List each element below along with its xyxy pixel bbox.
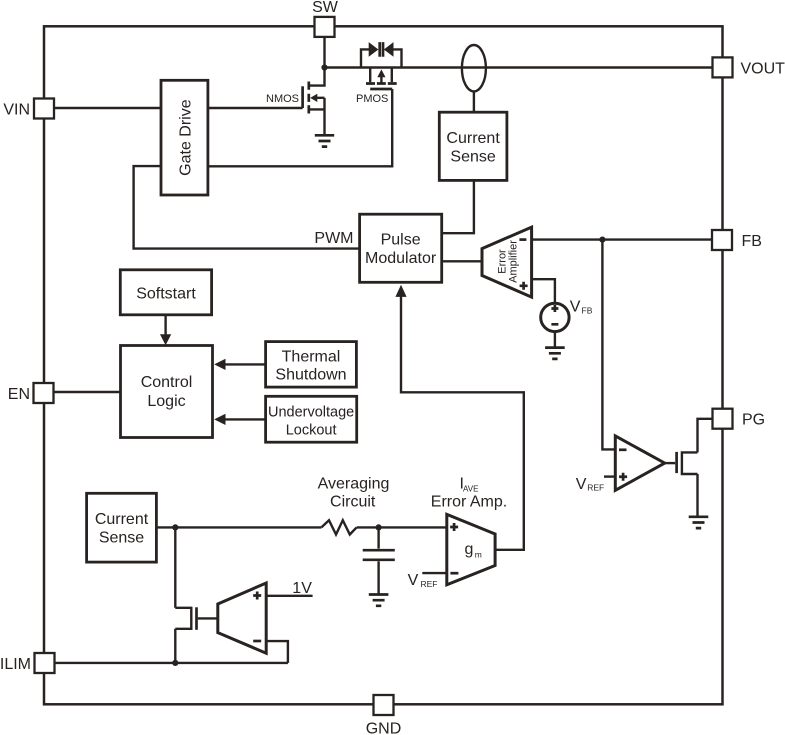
wire VIN to Gate Drive — [54, 107, 161, 109]
wire U4 output to Q4 gate — [198, 617, 218, 619]
svg-text:Sense: Sense — [99, 530, 144, 547]
svg-text:V: V — [576, 476, 587, 493]
diode D1 body diode (bidirectional pair) — [369, 42, 379, 57]
wire Undervoltage Lockout arrow to Control Logic — [225, 418, 266, 420]
capacitor C1 averaging — [377, 527, 379, 548]
svg-text:AVE: AVE — [463, 484, 478, 493]
pin PG — [713, 409, 733, 429]
pin VOUT — [713, 57, 733, 77]
svg-text:SW: SW — [312, 0, 339, 16]
op-amp U4 current limit comparator — [218, 583, 266, 653]
wire SW pin down to switch node — [323, 37, 325, 68]
wire Q3 drain to PG pin — [698, 419, 713, 453]
svg-text:NMOS: NMOS — [266, 93, 299, 105]
ground Q3 source — [689, 517, 709, 528]
pin EN — [34, 383, 54, 403]
node current sense branch — [172, 524, 178, 530]
pin FB — [712, 230, 732, 250]
node after resistor — [376, 524, 382, 530]
svg-text:V: V — [570, 299, 581, 316]
wire Q4 source to ILIM rail — [174, 629, 176, 663]
svg-text:g: g — [465, 541, 474, 558]
label U1 minus — [519, 238, 526, 241]
box Control Logic — [121, 346, 213, 438]
label U3 minus — [450, 572, 458, 575]
box Pulse Modulator — [360, 214, 442, 282]
box Thermal Shutdown — [266, 342, 357, 388]
current sense loop ellipse — [462, 45, 486, 91]
op-amp U3 gm error amp — [447, 514, 495, 584]
wire Thermal Shutdown arrow to Control Logic — [225, 363, 266, 365]
pin VIN — [34, 99, 54, 119]
svg-text:Amplifier: Amplifier — [508, 240, 520, 283]
svg-text:Current: Current — [95, 511, 149, 528]
box Current Sense (limit) — [87, 493, 157, 562]
box Softstart — [120, 270, 211, 315]
svg-text:V: V — [408, 572, 419, 589]
label U1 plus — [520, 282, 528, 290]
svg-text:Softstart: Softstart — [136, 285, 196, 302]
op-amp U2 PG comparator — [615, 436, 664, 490]
svg-text:Undervoltage: Undervoltage — [268, 405, 354, 421]
svg-text:Gate Drive: Gate Drive — [177, 99, 194, 176]
transistor Q1 NMOS body arrow head — [310, 94, 317, 102]
wire U3 output up to Pulse Modulator arrow — [401, 296, 524, 550]
transistor Q2 PMOS channel bars — [366, 82, 397, 85]
svg-text:m: m — [475, 550, 482, 560]
pin ILIM — [35, 653, 55, 673]
ground NMOS source — [315, 135, 334, 146]
svg-text:FB: FB — [742, 233, 762, 250]
svg-text:Error Amp.: Error Amp. — [431, 494, 507, 511]
wire switch node to VOUT — [325, 66, 713, 68]
transistor Q4 channel — [175, 608, 191, 629]
node switch-node junction — [321, 64, 327, 70]
svg-text:Current: Current — [446, 130, 500, 147]
svg-text:PMOS: PMOS — [356, 93, 388, 105]
svg-text:Pulse: Pulse — [381, 231, 421, 248]
svg-text:VOUT: VOUT — [741, 60, 785, 77]
ground VFB — [545, 348, 565, 359]
wire 1V reference to U4 plus — [266, 595, 312, 597]
box Undervoltage Lockout — [266, 396, 357, 442]
wire Softstart arrow to Control Logic — [164, 315, 166, 336]
label U3 plus — [450, 523, 458, 531]
node ILIM junction — [172, 660, 178, 666]
wire NMOS drain — [310, 68, 325, 86]
transistor Q1 NMOS channel bars — [307, 82, 310, 114]
label U2 plus — [619, 473, 627, 481]
wire FB junction down to PG comparator minus input — [602, 240, 615, 450]
svg-text:PG: PG — [742, 412, 765, 429]
wire Current Sense to averaging resistor and gm plus input — [156, 526, 446, 528]
pin SW — [315, 17, 335, 37]
wire Q3 source to ground — [696, 474, 698, 517]
op-amp U1 Error Amplifier — [482, 227, 532, 297]
wire EN pin to Control Logic — [54, 391, 121, 393]
resistor averaging — [321, 520, 356, 534]
svg-text:PWM: PWM — [314, 230, 353, 247]
transistor Q3 channel — [682, 452, 698, 474]
wire body diode loop — [361, 49, 402, 67]
svg-text:Control: Control — [141, 374, 193, 391]
transistor Q2 PMOS gate plate — [370, 88, 392, 91]
label U4 plus — [253, 592, 261, 600]
source VFB — [541, 303, 569, 331]
wire VREF to PG comparator plus input — [604, 475, 615, 477]
wire U4 minus feedback to ILIM rail — [266, 641, 288, 663]
wire Q4 drain from current sense node — [174, 527, 176, 607]
svg-text:VIN: VIN — [3, 101, 30, 118]
label U4 minus — [253, 640, 261, 643]
wire Pulse Modulator to Error Amplifier output — [442, 260, 482, 262]
box Gate Drive — [161, 80, 208, 195]
svg-text:1V: 1V — [292, 580, 312, 597]
ground C1 — [369, 595, 389, 606]
transistor Q2 PMOS body arrow — [380, 76, 382, 84]
wire ILIM rail — [55, 662, 288, 664]
svg-text:Circuit: Circuit — [330, 494, 376, 511]
label U2 minus — [619, 448, 627, 451]
node FB junction — [599, 237, 605, 243]
svg-text:ILIM: ILIM — [0, 656, 31, 673]
svg-text:Lockout: Lockout — [286, 422, 337, 438]
wire PWM: Pulse Modulator to Gate Drive — [134, 166, 360, 249]
wire VFB source to ground — [554, 332, 556, 348]
transistor Q2 PMOS source/drain stubs — [370, 68, 392, 83]
svg-text:REF: REF — [421, 579, 438, 589]
wire NMOS body arrow line and source to ground — [310, 98, 325, 135]
wire U2 output to Q3 gate — [665, 462, 676, 464]
svg-text:REF: REF — [587, 482, 604, 492]
wire Current Sense output to Pulse Modulator — [442, 180, 474, 233]
svg-text:Logic: Logic — [147, 393, 185, 410]
wire Gate Drive to NMOS gate — [208, 107, 303, 109]
chip boundary border — [44, 26, 723, 704]
svg-text:FB: FB — [582, 306, 593, 316]
transistor Q4 gate plate — [195, 607, 198, 630]
svg-text:Thermal: Thermal — [282, 348, 341, 365]
wire ellipse to Current Sense box — [473, 91, 475, 112]
svg-text:Modulator: Modulator — [365, 250, 437, 267]
wire PMOS gate down to Gate Drive output — [208, 89, 392, 166]
pin GND — [374, 695, 394, 715]
svg-text:GND: GND — [366, 721, 402, 735]
svg-text:Shutdown: Shutdown — [275, 367, 346, 384]
wire VREF to gm minus input — [422, 572, 447, 574]
wire FB net: error amp minus input to FB pin — [532, 238, 713, 240]
svg-text:Sense: Sense — [450, 149, 495, 166]
box Current Sense (output) — [439, 112, 507, 180]
transistor Q1 NMOS gate plate — [301, 86, 304, 108]
svg-text:Averaging: Averaging — [318, 475, 390, 492]
wire error amp plus input to VFB source — [532, 279, 555, 303]
transistor Q3 gate plate — [675, 452, 678, 473]
svg-text:EN: EN — [8, 386, 30, 403]
